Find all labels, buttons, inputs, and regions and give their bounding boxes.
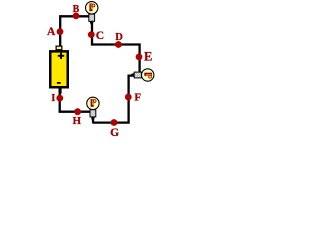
svg-text:F: F [134, 92, 141, 104]
node F dot [125, 94, 132, 101]
node C dot [88, 31, 95, 38]
wire battery top to corner to lamp L1 [60, 16, 90, 47]
battery BAT1 bottom terminal nub [59, 89, 62, 94]
lamp L2 (right, rotated bulb-right) [131, 69, 154, 81]
battery BAT1 body [50, 51, 68, 87]
svg-text:A: A [47, 26, 56, 38]
svg-text:D: D [115, 32, 123, 43]
wire lamp L3 tip stub [92, 117, 94, 123]
svg-text:I: I [51, 93, 55, 104]
battery BAT1 top terminal nub [56, 46, 62, 50]
wire battery bottom down, right to lamp L3 base [60, 89, 90, 112]
node G dot [111, 119, 118, 126]
wire lamp L2 tip left, down, left along bottom to lamp L3 tip [92, 76, 134, 123]
node E dot [136, 54, 143, 61]
lamp L1 (top) [86, 2, 98, 25]
svg-text:E: E [144, 49, 152, 63]
node B dot [73, 13, 80, 20]
svg-text:G: G [110, 127, 119, 139]
node I dot [56, 95, 63, 102]
svg-text:C: C [96, 30, 104, 42]
svg-text:H: H [73, 115, 82, 127]
node D dot [115, 41, 122, 48]
svg-text:B: B [73, 4, 80, 15]
wire lamp L1 tip down, right along top-middle, down to lamp L2 [92, 22, 140, 73]
node H dot [74, 108, 81, 115]
lamp L3 (bottom) [87, 97, 99, 120]
battery BAT1 minus mark [57, 82, 61, 84]
node A dot [57, 28, 64, 35]
battery BAT1 plus mark [58, 53, 64, 59]
